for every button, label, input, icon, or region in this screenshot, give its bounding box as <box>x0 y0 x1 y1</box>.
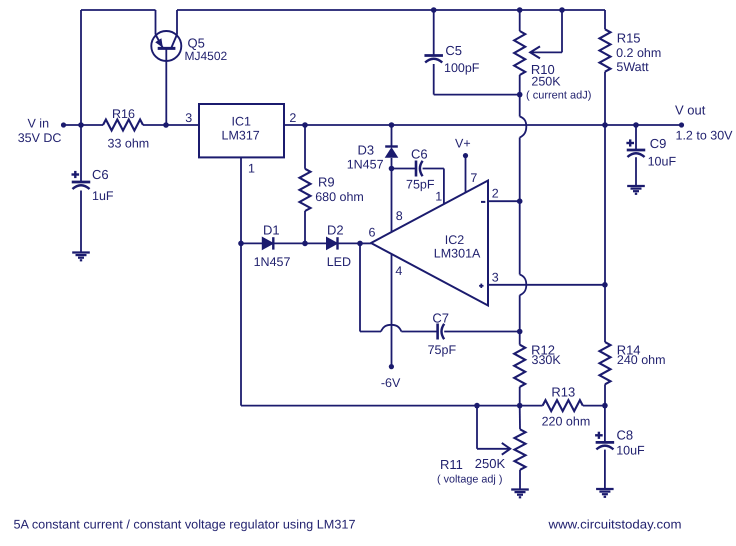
label 330K <box>532 353 562 367</box>
wire hop over main rail <box>520 117 527 138</box>
label LM317 <box>222 128 260 142</box>
label MJ4502 <box>185 49 228 63</box>
label R10 <box>531 62 555 77</box>
svg-text:220 ohm: 220 ohm <box>542 414 591 428</box>
svg-text:75pF: 75pF <box>406 178 435 192</box>
svg-text:LED: LED <box>327 255 351 269</box>
wire pin6 junction down <box>359 243 361 331</box>
svg-text:100pF: 100pF <box>444 61 480 75</box>
label 1N457 for D1 <box>254 255 291 269</box>
ground under C9 <box>627 186 645 194</box>
wire hop over pin 3 wire <box>520 275 527 296</box>
svg-text:10uF: 10uF <box>648 155 677 169</box>
op-amp plus sign pin 3 <box>479 284 483 288</box>
op-amp U1 triangle IC2 <box>371 181 488 306</box>
caption title <box>14 518 356 532</box>
potentiometer R11 <box>515 429 526 470</box>
svg-text:C7: C7 <box>432 311 449 326</box>
wire C5 top lead <box>433 10 435 56</box>
wire C9 top lead <box>635 125 637 150</box>
wire R10 top lead <box>519 10 521 31</box>
wire D3 cathode lead <box>391 125 393 147</box>
pin 2 label IC2 <box>492 186 499 200</box>
label C7 <box>432 311 449 326</box>
svg-text:C8: C8 <box>617 427 634 442</box>
pin 6 label IC2 <box>369 226 376 240</box>
svg-text:www.circuitstoday.com: www.circuitstoday.com <box>547 518 681 532</box>
svg-text:V in: V in <box>28 117 50 131</box>
svg-text:V+: V+ <box>455 137 471 151</box>
label voltage adj <box>437 474 502 486</box>
label LM301A <box>434 247 481 261</box>
label R11 <box>440 457 463 472</box>
svg-text:75pF: 75pF <box>428 343 457 357</box>
junction D3 top on main rail <box>389 122 395 128</box>
resistor R9 <box>300 169 311 211</box>
svg-text:1: 1 <box>435 190 442 204</box>
label R16 <box>112 107 135 121</box>
junction R15 on main rail <box>602 122 608 128</box>
svg-text:1N457: 1N457 <box>347 158 384 172</box>
capacitor C6 (75pF) <box>416 161 423 177</box>
label C9 <box>650 136 667 151</box>
junction C7 / R12 top <box>517 329 523 335</box>
svg-text:250K: 250K <box>531 74 561 88</box>
label 10uF for C9 <box>648 155 677 169</box>
svg-text:V out: V out <box>675 103 706 118</box>
wire R11 top lead <box>519 406 521 430</box>
svg-text:R11: R11 <box>440 457 463 472</box>
regulator IC1 box <box>199 104 284 157</box>
svg-text:240 ohm: 240 ohm <box>617 353 666 367</box>
svg-text:C5: C5 <box>445 43 462 58</box>
wire lower-left vertical from diode line <box>240 243 242 405</box>
wire to D1 <box>241 242 262 244</box>
Q5 collector wire from top rail <box>171 10 177 48</box>
svg-text:6: 6 <box>369 226 376 240</box>
svg-text:-6V: -6V <box>381 376 401 390</box>
wire C5 bottom to R10 bottom node <box>434 64 520 95</box>
svg-text:1: 1 <box>248 161 255 175</box>
pin 1 label IC1 <box>248 161 255 175</box>
svg-text:D1: D1 <box>263 223 280 238</box>
wire R11 wiper branch down <box>476 406 478 449</box>
label IC1 <box>232 114 252 128</box>
label 5Watt <box>616 60 649 74</box>
svg-text:330K: 330K <box>532 353 562 367</box>
label Q5 <box>188 36 205 51</box>
Q5 emitter arrow <box>155 38 163 47</box>
junction R12 bottom on lower rail <box>517 403 523 409</box>
junction R9 top on main rail <box>302 122 308 128</box>
wire C8 top lead <box>604 406 606 443</box>
wire top rail corner down to R15 <box>604 10 606 29</box>
svg-text:( voltage adj ): ( voltage adj ) <box>437 474 502 486</box>
op-amp minus sign pin 2 <box>481 201 485 203</box>
svg-text:35V DC: 35V DC <box>18 131 62 145</box>
svg-text:C9: C9 <box>650 136 667 151</box>
junction R9 bottom / diode line <box>302 241 308 247</box>
svg-text:( current adJ): ( current adJ) <box>526 89 591 101</box>
wire to C7 <box>401 331 437 333</box>
wire R13 to C8 node <box>583 405 605 407</box>
svg-text:250K: 250K <box>475 456 506 471</box>
junction R10 wiper on top rail <box>559 7 565 13</box>
svg-text:3: 3 <box>185 111 192 125</box>
junction R13 / R14 / C8 <box>602 403 608 409</box>
junction Q5 base / R16 <box>163 122 169 128</box>
wire left input vertical (Vin rail up to top rail) <box>80 10 82 125</box>
svg-text:8: 8 <box>396 209 403 223</box>
pin 1 label IC2 <box>435 190 442 204</box>
svg-text:7: 7 <box>470 171 477 185</box>
wire R10 wiper arm <box>532 10 563 52</box>
wire V in to R16 <box>64 124 104 126</box>
label 220 ohm <box>542 414 591 428</box>
svg-text:5Watt: 5Watt <box>616 60 649 74</box>
wire IC1 pin1 down <box>240 157 242 243</box>
label R14 <box>617 343 641 358</box>
junction C9 on main rail <box>633 122 639 128</box>
label 240 ohm <box>617 353 666 367</box>
resistor R13 <box>543 400 583 411</box>
svg-text:C6: C6 <box>92 167 109 182</box>
label 250K for R10 <box>531 74 561 88</box>
svg-text:3: 3 <box>492 270 499 284</box>
wire R10 node down to hop over main rail <box>519 95 521 117</box>
wire to D2 <box>305 242 327 244</box>
wire D2 to pin6 junction <box>338 242 361 244</box>
junction C5 top on top rail <box>431 7 437 13</box>
label 1uF <box>92 189 114 203</box>
junction pin 3 / R14 R15 branch <box>602 282 608 288</box>
diode D1 <box>262 237 273 249</box>
junction op-amp output pin 6 <box>357 241 363 247</box>
svg-text:IC1: IC1 <box>232 114 252 128</box>
junction D3 / C6 / pin8 <box>389 166 395 172</box>
wire input rail down to C6 <box>80 125 82 182</box>
label C6 75pF designator <box>411 147 428 162</box>
resistor R15 <box>600 29 611 71</box>
ground under C8 <box>596 489 614 497</box>
wire op-amp pin 2 to feedback node <box>488 200 520 202</box>
svg-text:MJ4502: MJ4502 <box>185 49 228 63</box>
node V+ terminal <box>463 153 468 158</box>
svg-text:IC2: IC2 <box>445 233 465 247</box>
diode D3 <box>385 147 398 158</box>
wire R16 to IC1 pin 3 <box>143 124 199 126</box>
wire V+ to op-amp pin 7 <box>465 156 467 193</box>
label V in <box>28 117 50 131</box>
wire junction to op-amp apex <box>360 242 371 244</box>
wire lower rail to R13 <box>241 405 543 407</box>
diode D2 LED <box>327 237 338 249</box>
resistor R16 <box>103 120 143 131</box>
node V out terminal <box>679 122 684 127</box>
wire top rail left segment <box>81 9 156 11</box>
svg-text:2: 2 <box>492 186 499 200</box>
label D1 <box>263 223 280 238</box>
svg-text:LM317: LM317 <box>222 128 260 142</box>
wire C7 to R12 node <box>444 331 520 333</box>
label 35V DC <box>18 131 62 145</box>
R11 wiper arrow <box>502 443 510 455</box>
node -6V terminal <box>389 364 394 369</box>
svg-text:LM301A: LM301A <box>434 247 481 261</box>
Q5 base bar <box>158 47 176 50</box>
pin 8 label IC2 <box>396 209 403 223</box>
wire D3 anode to junction <box>391 158 393 169</box>
junction R10 bottom / C5 <box>517 92 523 98</box>
wire R11 bottom to ground <box>519 470 521 490</box>
wire D1 to R9 junction <box>273 242 305 244</box>
label R13 <box>551 385 575 400</box>
label C6 <box>92 167 109 182</box>
wire R14 bottom lead <box>604 384 606 405</box>
wire C8 to ground <box>604 450 606 489</box>
wire C9 to ground <box>635 157 637 186</box>
svg-text:1uF: 1uF <box>92 189 114 203</box>
resistor R12 <box>514 345 525 387</box>
node V in terminal <box>61 122 66 127</box>
R10 wiper arrow <box>530 46 540 58</box>
wire hop to pin2 junction <box>519 138 521 202</box>
wire hop to C7 junction <box>519 295 521 331</box>
Q5 emitter wire from top rail <box>156 10 163 47</box>
svg-text:10uF: 10uF <box>616 444 645 458</box>
wire pin3 node down to R14 <box>604 285 606 342</box>
wire op-amp pin 4 down to -6V <box>391 254 393 367</box>
wire R10 bottom lead <box>519 75 521 95</box>
junction input rail <box>78 122 84 128</box>
svg-text:1.2 to 30V: 1.2 to 30V <box>676 129 734 143</box>
svg-text:4: 4 <box>395 264 402 278</box>
svg-text:2: 2 <box>289 111 296 125</box>
capacitor C6 (1uF) <box>72 171 91 189</box>
svg-text:0.2 ohm: 0.2 ohm <box>616 46 661 60</box>
wire D3 junction to C6 75pF <box>392 168 417 170</box>
ground under R11 <box>511 490 529 498</box>
potentiometer R10 <box>514 31 525 75</box>
transistor Q2 body circle Q5 <box>151 31 181 61</box>
label 10uF for C8 <box>616 444 645 458</box>
label 100pF <box>444 61 480 75</box>
wire C6 to ground <box>80 191 82 253</box>
pin 4 label IC2 <box>395 264 402 278</box>
svg-text:R16: R16 <box>112 107 135 121</box>
label current adj <box>526 89 591 101</box>
svg-text:5A constant current / constant: 5A constant current / constant voltage r… <box>14 518 356 532</box>
label 33 ohm <box>108 136 150 150</box>
resistor R14 <box>600 342 611 384</box>
wire R15 bottom to main rail <box>604 72 606 125</box>
svg-text:C6: C6 <box>411 147 428 162</box>
label 0.2 ohm <box>616 46 661 60</box>
wire D3 junction down to op-amp pin 8 <box>391 169 393 233</box>
wire along C7 line left part <box>360 331 381 333</box>
capacitor C7 <box>438 324 445 340</box>
wire R11 wiper horizontal <box>477 448 509 450</box>
wire R9 top lead <box>304 125 306 169</box>
svg-text:D3: D3 <box>358 143 375 158</box>
junction R10 top on top rail <box>517 7 523 13</box>
wire op-amp pin 3 to R14 node <box>488 284 605 286</box>
capacitor C8 <box>595 432 614 450</box>
junction pin1 / D1 <box>238 241 244 247</box>
junction R11 wiper branch <box>474 403 480 409</box>
wire C6 75pF to op-amp pin 1 <box>423 169 444 204</box>
label 75pF for C7 <box>428 343 457 357</box>
label 1N457 for D3 <box>347 158 384 172</box>
label V out <box>675 103 706 118</box>
wire hop over -6V line <box>381 325 401 332</box>
svg-text:680 ohm: 680 ohm <box>315 190 364 204</box>
label V+ <box>455 137 471 151</box>
label 250K for R11 <box>475 456 506 471</box>
label -6V <box>381 376 401 390</box>
pin 3 label IC2 <box>492 270 499 284</box>
svg-text:33 ohm: 33 ohm <box>108 136 150 150</box>
label 1.2 to 30V <box>676 129 734 143</box>
label R15 <box>617 30 641 45</box>
wire main rail down to pin3 node <box>604 125 606 285</box>
ground under C6 <box>72 253 90 261</box>
svg-text:R9: R9 <box>318 174 335 189</box>
label C8 <box>617 427 634 442</box>
pin 3 label IC1 <box>185 111 192 125</box>
pin 2 label IC1 <box>289 111 296 125</box>
label 680 ohm <box>315 190 364 204</box>
svg-text:R13: R13 <box>551 385 575 400</box>
Q5 base lead down to input rail <box>165 48 167 125</box>
junction pin 2 feedback <box>517 198 523 204</box>
wire R12 top lead <box>519 332 521 345</box>
wire pin2 junction down to hop over pin3 wire <box>519 201 521 274</box>
wire top rail right segment <box>177 9 605 11</box>
svg-text:1N457: 1N457 <box>254 255 291 269</box>
caption website <box>547 518 681 532</box>
wire R12 bottom lead <box>519 387 521 406</box>
label C5 <box>445 43 462 58</box>
label D2 <box>327 223 344 238</box>
label LED <box>327 255 351 269</box>
label R12 <box>531 343 555 358</box>
svg-text:D2: D2 <box>327 223 344 238</box>
capacitor C5 <box>424 56 443 63</box>
label R9 <box>318 174 335 189</box>
pin 7 label IC2 <box>470 171 477 185</box>
label 75pF <box>406 178 435 192</box>
capacitor C9 <box>626 139 645 157</box>
svg-text:R15: R15 <box>617 30 641 45</box>
label D3 <box>358 143 375 158</box>
wire R9 bottom lead <box>304 211 306 243</box>
wire main rail IC1 pin2 to V out <box>284 124 682 126</box>
label IC2 <box>445 233 465 247</box>
